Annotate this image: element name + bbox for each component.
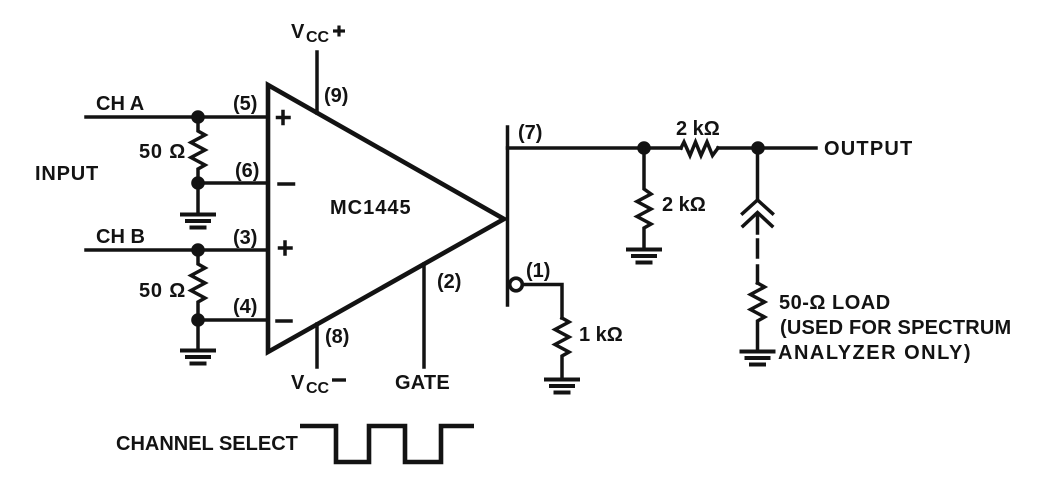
resistor R6 50 ohm load [751,283,765,350]
svg-text:MC1445: MC1445 [330,197,412,219]
svg-text:2 kΩ: 2 kΩ [662,194,706,216]
svg-text:(4): (4) [233,296,257,318]
junction node A [637,141,651,155]
op-amp U1 MC1445 triangle [268,85,504,352]
junction node R1 bottom [191,176,205,190]
waveform channel select [300,426,474,462]
ground G4 [546,380,578,393]
svg-text:OUTPUT: OUTPUT [824,138,913,160]
resistor R3 2k series [681,142,718,156]
svg-text:ANALYZER ONLY): ANALYZER ONLY) [778,342,972,364]
svg-text:(8): (8) [325,326,349,348]
minus mark pin 4 [277,319,291,323]
junction node R2 bottom [191,313,205,327]
svg-text:GATE: GATE [395,372,450,394]
svg-text:CC: CC [306,380,330,397]
svg-text:(9): (9) [324,85,348,107]
wire pin 6 [198,181,268,185]
svg-text:V: V [291,21,305,43]
resistor R1 50 ohm [191,117,205,183]
svg-text:(USED FOR SPECTRUM: (USED FOR SPECTRUM [780,317,1011,339]
pin 1 open circle [510,278,523,291]
dashed wire to load [756,240,760,283]
resistor R2 50 ohm [191,250,205,320]
svg-text:CH B: CH B [96,226,145,248]
junction node CH B [191,243,205,257]
wire pin 1 to R5 [524,285,562,319]
plus mark pin 3 [280,242,292,254]
wire node B down [756,148,760,198]
ground G2 [182,320,214,364]
svg-text:(5): (5) [233,93,257,115]
junction node B [751,141,765,155]
svg-text:50-Ω LOAD: 50-Ω LOAD [779,292,891,314]
wire CH B input to pin 3 [86,248,268,252]
svg-text:50 Ω: 50 Ω [139,141,186,163]
wire output stem vertical [506,127,510,305]
connector arrows to load [743,200,773,233]
wire pin 8 VCC- [315,324,319,367]
ground G1 [182,183,214,228]
svg-text:CH A: CH A [96,93,144,115]
wire CH A input to pin 5 [86,115,268,119]
svg-text:50 Ω: 50 Ω [139,280,186,302]
wire pin 4 [198,318,268,322]
resistor R4 2k shunt [637,148,651,248]
svg-text:CC: CC [306,29,330,46]
svg-text:INPUT: INPUT [35,163,99,185]
svg-text:(2): (2) [437,271,461,293]
resistor R5 1k [555,318,569,378]
svg-text:(6): (6) [235,160,259,182]
svg-text:2 kΩ: 2 kΩ [676,118,720,140]
plus mark pin 5 [278,112,290,124]
svg-text:CHANNEL SELECT: CHANNEL SELECT [116,433,298,455]
power label VCC- [291,372,346,397]
power label VCC+ [291,21,345,46]
junction node CH A [191,110,205,124]
svg-text:V: V [291,372,305,394]
wire node A to node B [718,146,758,150]
wire pin 7 to node A [508,146,682,150]
ground G3 [628,250,660,263]
wire pin 9 VCC+ [315,52,319,113]
wire node B to output [758,146,816,150]
minus mark pin 6 [279,182,294,186]
svg-text:(3): (3) [233,227,257,249]
ground G5 [742,352,774,365]
svg-text:(7): (7) [518,122,542,144]
svg-text:(1): (1) [526,260,550,282]
svg-text:1 kΩ: 1 kΩ [579,324,623,346]
wire pin 2 GATE [422,264,426,367]
